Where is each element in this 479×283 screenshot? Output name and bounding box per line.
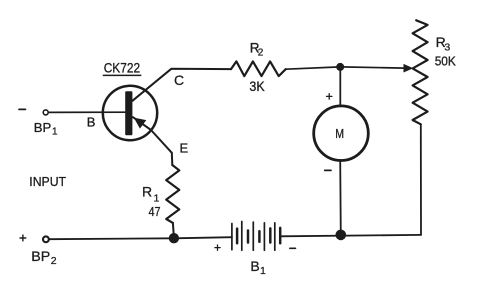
svg-text:2: 2	[258, 48, 264, 59]
svg-text:1: 1	[52, 127, 58, 138]
svg-text:50K: 50K	[435, 54, 456, 69]
svg-text:2: 2	[51, 255, 57, 267]
svg-text:B: B	[87, 114, 96, 129]
svg-text:BP: BP	[31, 248, 50, 264]
svg-text:3: 3	[444, 42, 450, 54]
svg-text:47: 47	[149, 204, 161, 219]
svg-text:R: R	[142, 184, 152, 200]
svg-text:INPUT: INPUT	[29, 174, 66, 189]
svg-text:3K: 3K	[249, 78, 265, 94]
svg-text:BP: BP	[34, 120, 52, 135]
svg-text:M: M	[335, 126, 344, 141]
svg-text:C: C	[174, 72, 184, 88]
svg-text:B: B	[250, 258, 259, 274]
svg-text:1: 1	[260, 265, 266, 277]
svg-text:CK722: CK722	[104, 59, 141, 75]
svg-text:E: E	[180, 141, 189, 156]
svg-text:1: 1	[154, 193, 160, 205]
